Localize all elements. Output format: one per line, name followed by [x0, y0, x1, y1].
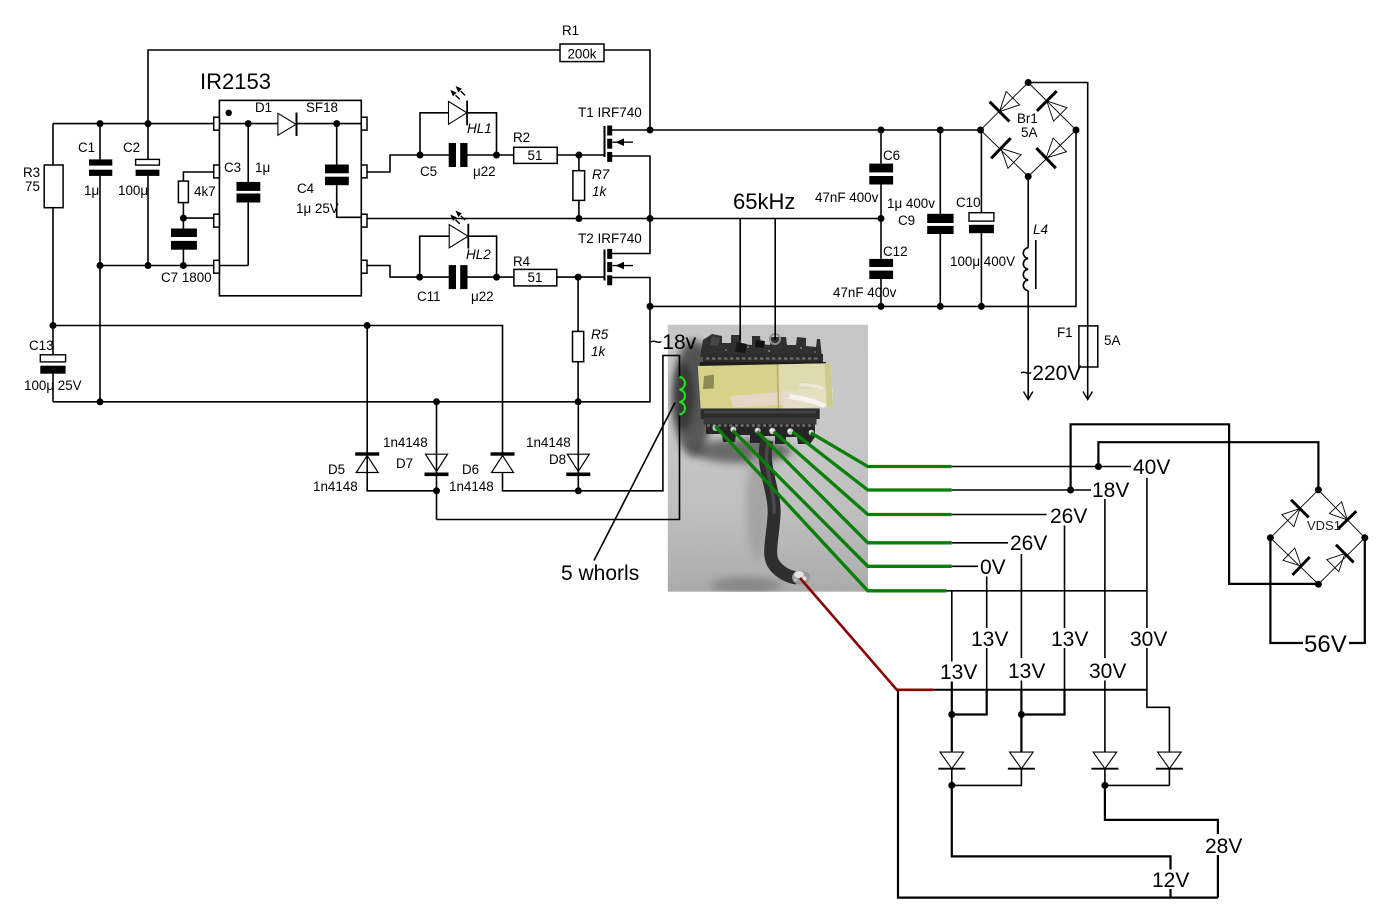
svg-text:C11: C11	[417, 289, 441, 304]
wire D8 rail to coil top	[578, 356, 679, 491]
svg-text:0V: 0V	[980, 556, 1006, 579]
wire C9 column	[939, 130, 941, 214]
wire R3 C13 column	[52, 124, 54, 165]
transistor Q1 T1 IRF740	[605, 126, 634, 162]
svg-text:51: 51	[528, 148, 543, 163]
svg-text:T2 IRF740: T2 IRF740	[578, 231, 642, 246]
Br1 diode bottom-left	[991, 138, 1024, 171]
pin 6	[361, 214, 367, 227]
wire D7 column	[436, 402, 438, 520]
diode D5 1n4148	[355, 452, 379, 472]
wire D5 column	[367, 326, 436, 491]
wire c2 jumper	[952, 690, 987, 715]
wire T2 drain	[611, 219, 650, 254]
svg-text:μ22: μ22	[471, 289, 494, 304]
wire D8 column	[577, 402, 579, 491]
wire VDS1 left to 56V	[1270, 538, 1303, 643]
svg-text:1μ: 1μ	[84, 183, 99, 198]
transformer yellow tape	[698, 363, 833, 410]
node C9 top	[937, 127, 944, 134]
pin 5	[361, 260, 367, 273]
capacitor C13 electrolytic	[40, 355, 65, 374]
resistor R7 1k	[573, 171, 585, 201]
diode D1 SF18	[278, 113, 298, 137]
rectifier diode out1	[938, 752, 965, 769]
svg-text:13V: 13V	[1051, 628, 1088, 651]
svg-text:1k: 1k	[592, 184, 608, 199]
svg-text:1k: 1k	[591, 344, 607, 359]
wire C1 column	[99, 124, 101, 160]
resistor 4k7	[178, 181, 188, 203]
resistor R3 75	[44, 165, 63, 208]
svg-text:SF18: SF18	[306, 100, 338, 115]
svg-text:26V: 26V	[1010, 532, 1047, 555]
wire C5 row	[420, 154, 449, 156]
svg-text:~220V: ~220V	[1020, 362, 1081, 385]
cable connector	[792, 571, 810, 585]
svg-text:100μ: 100μ	[118, 183, 148, 198]
transformer bottom flange	[701, 409, 820, 420]
node VDS1 top	[1315, 486, 1322, 493]
node C1 com	[97, 262, 104, 269]
pin 2	[214, 165, 220, 178]
svg-text:C9: C9	[898, 213, 915, 228]
capacitor C9	[927, 214, 953, 234]
svg-text:L4: L4	[1033, 222, 1048, 237]
wire secondary green 5	[733, 431, 952, 567]
rectifier diode out3	[1091, 752, 1118, 769]
svg-text:1μ 400v: 1μ 400v	[887, 196, 935, 211]
diode D6 1n4148	[491, 452, 515, 472]
svg-text:C10: C10	[956, 195, 981, 210]
wire DC plus rail	[650, 129, 981, 131]
svg-text:Br1: Br1	[1017, 111, 1038, 126]
node cap mid	[878, 215, 885, 222]
arrow mains neutral	[1024, 392, 1033, 400]
wire secondary green 3	[774, 432, 952, 515]
node T1 drain	[647, 127, 654, 134]
svg-text:R4: R4	[513, 254, 531, 269]
wire primary drop 1	[739, 219, 741, 341]
node C2 top	[145, 120, 152, 127]
wire VCC rail	[53, 123, 278, 125]
node D5 D7	[433, 487, 440, 494]
pin 4	[214, 260, 220, 273]
svg-text:100μ 400V: 100μ 400V	[950, 254, 1015, 269]
node VDS1 left	[1267, 534, 1274, 541]
svg-text:100μ 25V: 100μ 25V	[24, 378, 82, 393]
node C5 left	[417, 152, 424, 159]
wire 40V to VDS1 top	[1098, 442, 1318, 490]
wire 5 whorls pointer	[594, 403, 675, 561]
wire C12 column	[880, 219, 882, 259]
svg-text:F1: F1	[1057, 325, 1073, 340]
node C1 gnd	[97, 398, 104, 405]
svg-text:D5: D5	[328, 462, 345, 477]
svg-text:C6: C6	[883, 148, 900, 163]
wire c3 to diode2	[1020, 690, 1022, 753]
wire 4k7 to pin2	[183, 172, 213, 181]
node pin1 marker	[226, 110, 232, 116]
svg-text:D7: D7	[396, 456, 413, 471]
node D1 anode	[245, 120, 252, 127]
transformer photo	[668, 325, 868, 593]
wire VB internal	[298, 123, 368, 125]
svg-text:μ22: μ22	[473, 164, 496, 179]
pin 8	[361, 117, 367, 130]
wire 26V row 1	[952, 514, 1047, 516]
transformer top pins comb	[700, 334, 822, 357]
svg-text:D8: D8	[549, 452, 566, 467]
node VB	[333, 120, 340, 127]
wire R1 to HV rail	[604, 50, 650, 130]
svg-text:18V: 18V	[1092, 479, 1129, 502]
node d3 out	[1101, 782, 1108, 789]
svg-text:47nF 400v: 47nF 400v	[833, 285, 897, 300]
svg-text:C4: C4	[297, 181, 315, 196]
wire COM rail	[100, 265, 248, 267]
svg-text:D6: D6	[462, 462, 479, 477]
svg-text:1n4148: 1n4148	[313, 479, 358, 494]
wire HL1 bypass	[420, 113, 449, 155]
svg-text:C5: C5	[420, 164, 437, 179]
wire primary drop 2	[774, 219, 776, 341]
LED HL1	[449, 86, 469, 125]
capacitor C4	[325, 165, 349, 186]
wire C6 column	[880, 130, 882, 164]
node Br1 top	[1025, 79, 1032, 86]
wire mains neutral via L4	[1027, 177, 1029, 248]
diode D7 1n4148	[425, 454, 449, 476]
Br1 diode top-left	[990, 88, 1023, 121]
node c3 c4 join	[1018, 711, 1025, 718]
svg-text:VDS1: VDS1	[1307, 518, 1341, 533]
Br1 diode top-right	[1037, 91, 1070, 124]
wire R7 column	[578, 155, 580, 171]
svg-text:R5: R5	[591, 327, 609, 342]
node Br1 right	[1073, 127, 1080, 134]
wire column c1	[951, 591, 953, 662]
wire mains live	[1028, 83, 1088, 326]
svg-text:C7 1800: C7 1800	[161, 270, 212, 285]
svg-text:200k: 200k	[567, 47, 596, 62]
node C9 bottom	[937, 303, 944, 310]
wire column c5	[1104, 499, 1106, 658]
svg-text:56V: 56V	[1304, 631, 1347, 658]
wire VDS1 right to 56V	[1349, 538, 1365, 643]
node D6 D8	[575, 487, 582, 494]
svg-text:26V: 26V	[1050, 505, 1087, 528]
svg-text:47nF 400v: 47nF 400v	[815, 190, 879, 205]
svg-text:30V: 30V	[1089, 660, 1126, 683]
node T2 source	[647, 303, 654, 310]
wire top R1 feed	[148, 50, 560, 124]
svg-text:R3: R3	[23, 165, 40, 180]
node T2 gate	[575, 274, 582, 281]
wire 18V to VDS1 bottom	[1071, 424, 1319, 584]
node VDS1 bottom	[1315, 581, 1322, 588]
svg-text:C12: C12	[883, 244, 908, 259]
svg-text:C3: C3	[224, 160, 241, 175]
Br1 diode bottom-right	[1036, 135, 1069, 168]
svg-text:R1: R1	[562, 23, 579, 38]
wire secondary green 6	[715, 426, 946, 591]
pin 7	[361, 165, 367, 178]
node c1 c2 join	[948, 711, 955, 718]
node Br1 left	[977, 127, 984, 134]
svg-text:R2: R2	[513, 130, 530, 145]
inductor secondary 5 whorls coil	[680, 377, 686, 415]
svg-text:1n4148: 1n4148	[383, 435, 428, 450]
wire T2 source	[611, 278, 650, 307]
node VDS1 right	[1361, 534, 1368, 541]
LED HL2	[449, 211, 469, 249]
VDS1 diode top-left	[1279, 500, 1309, 530]
wire column c4	[1064, 526, 1066, 629]
VDS1 diode top-right	[1326, 499, 1356, 529]
capacitor C2 electrolytic	[136, 159, 160, 176]
wire secondary green 1	[715, 426, 952, 591]
node D7 top	[433, 398, 440, 405]
svg-text:1n4148: 1n4148	[449, 479, 494, 494]
wire secondary red tap	[800, 578, 934, 690]
node C11 right	[493, 274, 500, 281]
resistor R1 200k	[560, 44, 604, 62]
node halfbridge mid	[647, 215, 654, 222]
node C2 com	[145, 262, 152, 269]
node Br1 bottom	[1025, 173, 1032, 180]
rectifier diode out4	[1156, 752, 1183, 769]
svg-text:13V: 13V	[940, 661, 977, 684]
wire gnd return	[53, 306, 650, 401]
wire column c6	[1146, 478, 1148, 628]
node R5 bottom	[575, 398, 582, 405]
wire R5 column	[577, 277, 579, 331]
wire halfbridge rail	[367, 218, 881, 220]
node C6 top	[878, 127, 885, 134]
wire 0V row	[952, 565, 978, 567]
op-amp U1 IR2153 body	[219, 100, 361, 295]
wire T1 source	[611, 156, 650, 219]
wire rectifier input row	[934, 689, 1147, 691]
wire diode3 to diode4 bottom	[1105, 784, 1170, 786]
wire common return	[898, 690, 1218, 897]
node R7 bottom	[575, 215, 582, 222]
wire aux rail	[53, 326, 503, 453]
node 18V junction	[1067, 487, 1074, 494]
node C10 bottom	[978, 303, 985, 310]
inductor L4	[1023, 240, 1035, 291]
node C1 top	[97, 120, 104, 127]
bridge VDS1 frame	[1270, 490, 1364, 584]
wire C2 column	[147, 124, 149, 160]
pin 3	[214, 214, 220, 227]
svg-text:1n4148: 1n4148	[526, 435, 571, 450]
wire pin5 to C11	[367, 266, 420, 278]
wire c5 to diode3	[1104, 690, 1106, 753]
wire c1 output to 12V	[952, 785, 1171, 869]
wire HL2 bypass	[420, 236, 450, 277]
arrow mains live	[1083, 392, 1092, 400]
svg-text:5 whorls: 5 whorls	[561, 562, 639, 585]
wire C7 bottom	[182, 250, 184, 266]
capacitor C3	[237, 182, 261, 203]
svg-text:12V: 12V	[1152, 869, 1189, 892]
capacitor C12	[869, 259, 893, 279]
VDS1 diode bottom-right	[1324, 545, 1354, 575]
wire c4 jumper	[1021, 690, 1064, 715]
wire DC minus rail	[650, 130, 1076, 306]
node C13 tap	[50, 322, 57, 329]
VDS1 diode bottom-left	[1280, 545, 1310, 575]
wire T1 drain	[611, 129, 650, 131]
svg-text:C13: C13	[29, 338, 54, 353]
wire 26V row 2	[952, 542, 1008, 544]
svg-text:T1 IRF740: T1 IRF740	[578, 105, 642, 120]
svg-text:HL2: HL2	[466, 247, 491, 262]
svg-text:40V: 40V	[1133, 456, 1170, 479]
svg-text:5A: 5A	[1104, 333, 1120, 348]
wire D6 bottom	[503, 473, 579, 491]
svg-text:~18v: ~18v	[650, 331, 697, 354]
svg-text:30V: 30V	[1130, 628, 1167, 651]
capacitor C10 electrolytic	[969, 213, 994, 234]
fuse F1 5A	[1079, 326, 1098, 367]
diode D8 1n4148	[566, 454, 590, 476]
wire secondary green 2	[793, 432, 952, 490]
transformer cable	[765, 440, 797, 578]
node C11 left	[416, 274, 423, 281]
wire D7 bottom rail to coil	[437, 415, 680, 520]
svg-text:D1: D1	[255, 100, 272, 115]
svg-text:13V: 13V	[1008, 660, 1045, 683]
wire c5 output to 28V	[1105, 785, 1218, 834]
node C5 right	[493, 152, 500, 159]
node C12 bottom	[878, 303, 885, 310]
wire c6 to diode4	[1147, 690, 1170, 753]
resistor R2 51	[514, 147, 558, 163]
wire column c3	[1020, 554, 1022, 658]
wire secondary green 4	[757, 432, 952, 543]
transistor Q2 T2 IRF740	[605, 249, 634, 285]
svg-text:1μ: 1μ	[255, 160, 270, 175]
capacitor C11	[449, 265, 468, 289]
transformer bottom pin block	[706, 424, 815, 444]
wire 18V row	[952, 489, 1091, 491]
capacitor C5	[449, 143, 468, 167]
svg-text:1μ 25V: 1μ 25V	[296, 201, 339, 216]
wire column c2	[986, 577, 988, 629]
pin 1	[214, 117, 220, 130]
resistor R4 51	[514, 269, 557, 286]
node d1 out	[948, 782, 955, 789]
bridge Br1 frame	[981, 83, 1077, 177]
wire C10 column	[980, 130, 982, 213]
wire C11 row	[420, 276, 449, 278]
svg-text:51: 51	[528, 270, 543, 285]
svg-text:28V: 28V	[1205, 835, 1242, 858]
wire 4k7 to pin3 node	[182, 203, 184, 229]
wire 40V row	[952, 466, 1131, 468]
capacitor C6	[869, 164, 893, 185]
svg-text:C1: C1	[78, 140, 95, 155]
svg-text:C2: C2	[123, 140, 140, 155]
svg-text:4k7: 4k7	[194, 184, 216, 199]
node T1 gate	[575, 152, 582, 159]
wire tap row	[947, 590, 1147, 592]
node C7 com	[180, 262, 187, 269]
rectifier diode out2	[1008, 752, 1035, 769]
wire C4 column	[336, 124, 338, 165]
svg-text:65kHz: 65kHz	[733, 189, 795, 214]
svg-text:R7: R7	[592, 167, 610, 182]
capacitor C1	[89, 159, 112, 176]
node D5 top	[364, 322, 371, 329]
resistor R5 1k	[573, 331, 584, 361]
wire pin7 to C5	[367, 155, 420, 172]
svg-text:75: 75	[25, 179, 40, 194]
svg-text:HL1: HL1	[467, 121, 492, 136]
svg-text:5A: 5A	[1021, 125, 1037, 140]
node CT	[180, 215, 187, 222]
node 40V junction	[1095, 463, 1102, 470]
svg-text:13V: 13V	[971, 628, 1008, 651]
transformer top flange	[703, 354, 823, 365]
capacitor C7 1800	[171, 229, 197, 250]
svg-text:IR2153: IR2153	[200, 69, 271, 94]
wire C3 column	[247, 124, 249, 182]
